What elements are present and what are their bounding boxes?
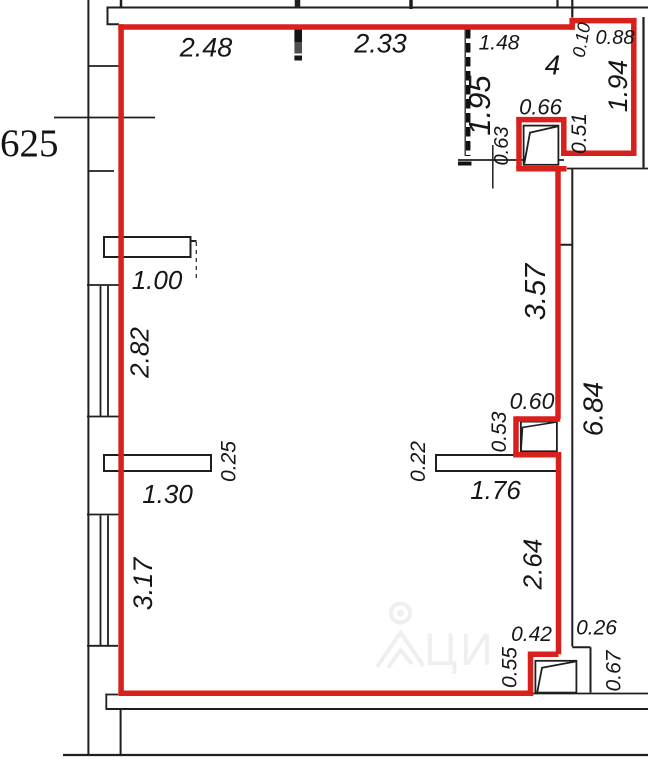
tick above band x411 [409, 0, 413, 9]
tick y244.8 [556, 244, 572, 246]
svg-text:625: 625 [0, 122, 59, 165]
svg-text:1.30: 1.30 [142, 479, 193, 509]
interior wall line x572 [571, 169, 573, 647]
dashed partition wall x467 [464, 29, 466, 156]
svg-text:0.26: 0.26 [576, 617, 617, 640]
svg-text:0.67: 0.67 [603, 649, 626, 691]
red door box top [516, 117, 566, 123]
red step horizontal 0.42 [528, 652, 559, 658]
svg-text:0.66: 0.66 [519, 95, 563, 120]
interior wall line y160 under room 4 [458, 159, 564, 161]
red notch left [513, 416, 519, 455]
dimension line x492.8 for 0.63 [492, 145, 494, 189]
left wall tick y66 [88, 65, 121, 67]
red bottom wall [118, 690, 533, 696]
wall stub above band x299 [295, 0, 301, 9]
svg-text:0.42: 0.42 [511, 623, 552, 646]
red step to upper rect [569, 21, 575, 30]
wall line y168.5 right of door box [567, 168, 648, 170]
door leaf in notch 0.60 [521, 422, 557, 452]
red apartment outline [118, 18, 636, 696]
svg-text:0.63: 0.63 [491, 127, 513, 166]
svg-text:1.76: 1.76 [470, 475, 521, 505]
red door box right edge [561, 117, 567, 156]
watermark cian pin icon [377, 604, 424, 669]
top band left step [107, 7, 120, 25]
svg-text:0.55: 0.55 [499, 647, 522, 688]
bottom-left step [106, 694, 118, 710]
window glazing lines upper segment [101, 286, 109, 416]
svg-text:0.60: 0.60 [510, 388, 555, 414]
shelf 1.30 rectangle [104, 455, 211, 471]
svg-text:2.82: 2.82 [125, 327, 155, 379]
svg-text:ЦИ: ЦИ [424, 624, 496, 675]
left wall tick y645.8 [87, 645, 118, 647]
door leaf in box 0.66 [524, 126, 559, 165]
svg-text:1.94: 1.94 [603, 60, 633, 113]
svg-text:1.48: 1.48 [479, 32, 520, 55]
svg-text:6.84: 6.84 [578, 382, 609, 437]
ticks above band at red step [556, 0, 558, 7]
red connector y153 [561, 150, 637, 156]
red notch bottom [513, 452, 561, 458]
red right wall upper [555, 168, 561, 419]
red left wall [118, 24, 124, 696]
svg-text:3.57: 3.57 [520, 262, 552, 320]
left outer wall line [87, 0, 89, 755]
red upper rect right [631, 18, 637, 153]
shelf 1.76 rectangle [436, 455, 560, 471]
svg-text:3.17: 3.17 [128, 557, 158, 611]
red step vertical [528, 654, 534, 693]
left wall tick y514.5 [87, 514, 121, 516]
shelf 1.00 rectangle [104, 237, 191, 257]
window glazing lines lower segment [101, 516, 109, 646]
thin dashed line below shelf [195, 242, 197, 281]
red right wall lower [556, 452, 562, 654]
svg-text:2.64: 2.64 [518, 539, 548, 591]
red top wall [118, 24, 572, 30]
partition end tick [458, 162, 472, 166]
svg-text:4: 4 [545, 50, 561, 81]
svg-text:2.48: 2.48 [179, 33, 233, 63]
vertical connector x120.6 [120, 709, 122, 755]
svg-text:0.25: 0.25 [218, 441, 241, 482]
left wall tick y416.5 [87, 416, 121, 418]
bottom right step walls [572, 647, 590, 692]
tick above band x121 [120, 0, 123, 8]
red notch top [516, 416, 560, 422]
svg-text:0.51: 0.51 [568, 113, 591, 154]
shelf notch tick [191, 240, 197, 242]
svg-text:1.95: 1.95 [462, 75, 497, 136]
neighbour wall x643.5 [642, 17, 644, 168]
bottom wall line y693.5 [530, 693, 648, 695]
red door box bottom [516, 166, 566, 172]
bottom wall line y709 [106, 708, 648, 710]
red door box left [516, 117, 522, 169]
svg-text:0.53: 0.53 [488, 411, 511, 452]
door leaf bottom right [535, 661, 576, 693]
red upper rect top [569, 18, 636, 24]
svg-text:1.00: 1.00 [132, 265, 183, 295]
top neighbour wall line [107, 0, 648, 25]
svg-text:0.88: 0.88 [596, 27, 635, 49]
level mark line 625 [54, 117, 155, 119]
bottom floor line y755 [63, 754, 648, 756]
svg-text:2.33: 2.33 [353, 29, 407, 59]
svg-text:0.22: 0.22 [407, 441, 430, 482]
left wall tick y171 [88, 170, 114, 172]
left wall tick y285 [87, 284, 121, 286]
wall stub below red top wall x298 [294, 30, 302, 44]
